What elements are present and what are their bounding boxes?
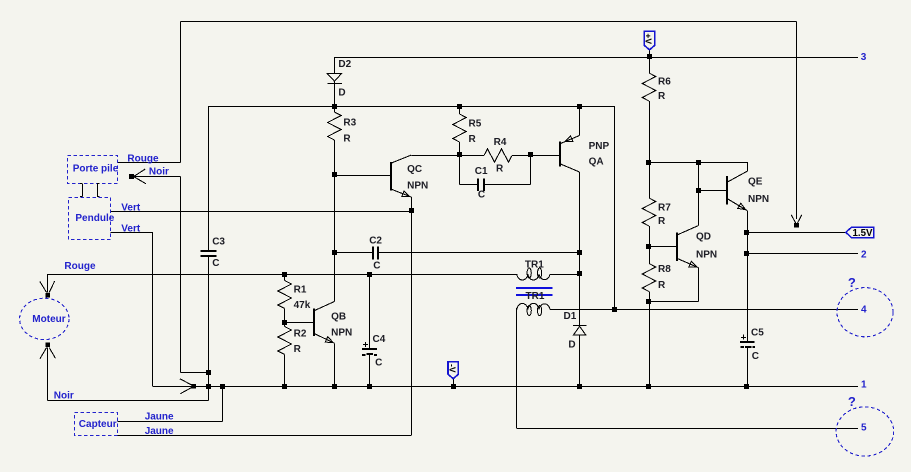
svg-text:-V: -V (447, 364, 457, 373)
wire Jaune1 wire (118, 421, 223, 423)
junction (649.5,57) (647, 54, 652, 59)
junction (411.2,211) (409, 208, 414, 213)
power symbol V- (448, 362, 458, 379)
svg-text:C: C (752, 351, 759, 362)
wire col x614 (614, 106, 616, 309)
wire C1 right col (530, 155, 532, 185)
svg-text:QE: QE (748, 177, 763, 188)
junction (579.4,273.9) (577, 271, 582, 276)
wire R6 bottom row (649, 162, 747, 164)
wire 1.5V row (747, 232, 846, 234)
transformer TR1 core (516, 287, 553, 289)
resistor R6 (642, 73, 656, 101)
wire node-1 row (153, 386, 858, 388)
wire V+ stub (649, 50, 651, 57)
wire row y106 (208, 106, 614, 108)
wire main row y274 left of TR1 (48, 274, 517, 276)
transformer TR1 primary (517, 274, 550, 280)
svg-text:R2: R2 (294, 329, 307, 340)
wire col x208 below C3 (208, 256, 210, 386)
svg-text:D: D (568, 339, 575, 350)
motor bottom terminal arrow (45, 342, 50, 347)
wire R7-R8 link (649, 226, 651, 264)
junction (222.4,386.2) (220, 384, 225, 389)
junction (369.3,274.2) (367, 272, 372, 277)
svg-text:3: 3 (861, 52, 867, 63)
junction (369.3,386.2) (367, 384, 372, 389)
node 5 circle (836, 407, 894, 456)
svg-text:2: 2 (861, 249, 867, 260)
svg-text:QA: QA (589, 156, 604, 167)
pins between Porte pile and Pendule (82, 184, 84, 197)
wire D2 bottom lead / R3 top (334, 81, 336, 112)
svg-text:PNP: PNP (589, 141, 610, 152)
node 4 circle (837, 288, 893, 337)
wire col x180 top (rouge) (180, 22, 182, 163)
svg-text:R: R (658, 216, 666, 227)
capacitor C5 polarized (740, 341, 755, 343)
wire D1 bottom lead (579, 335, 581, 386)
svg-text:R7: R7 (658, 202, 671, 213)
junction (579.4,252.8) (577, 250, 582, 255)
wire C5 bottom lead (747, 348, 749, 387)
junction (649,246.9) (646, 244, 651, 249)
wire col x152 vert2 (152, 232, 154, 386)
wire QC collector / R4 row left (411, 155, 484, 157)
svg-text:D: D (338, 87, 345, 98)
svg-text:5: 5 (861, 423, 867, 434)
junction (453.3,386.2) (451, 384, 456, 389)
svg-text:C1: C1 (475, 166, 488, 177)
svg-text:R5: R5 (469, 118, 482, 129)
wire col x180 noir (180, 176, 182, 372)
svg-text:C: C (478, 190, 485, 201)
junction (698.3,162) (696, 160, 701, 165)
junction (284.6,386.2) (282, 384, 287, 389)
svg-text:+V: +V (644, 33, 654, 44)
wire QA collector col (579, 172, 581, 325)
junction (747.0,253.5) (744, 251, 749, 256)
wire col R1 top lead (284, 274, 286, 280)
wire top row (180, 21, 796, 23)
resistor R7 (642, 198, 656, 226)
svg-text:R3: R3 (343, 117, 356, 128)
svg-text:C2: C2 (369, 236, 382, 247)
svg-text:47k: 47k (294, 300, 311, 311)
wire R6-R7 link (649, 101, 651, 198)
svg-text:R: R (658, 280, 666, 291)
wire C1 row right (484, 184, 531, 186)
wire Rouge top wire (117, 162, 180, 164)
svg-text:C3: C3 (212, 237, 225, 248)
resistor R4 (484, 149, 512, 162)
svg-text:1: 1 (861, 379, 867, 390)
svg-text:Vert: Vert (121, 224, 141, 235)
junction (334.4,106) (332, 104, 337, 109)
wire C2 row right (378, 252, 580, 254)
block Pendule (69, 198, 111, 240)
resistor R2 (278, 327, 292, 355)
svg-text:C5: C5 (751, 328, 764, 339)
wire motor bottom stub (47, 347, 49, 400)
motor top terminal arrow (45, 293, 50, 298)
svg-text:R8: R8 (658, 264, 671, 275)
transformer TR1 secondary (517, 303, 550, 309)
junction (208.3,386.2) (206, 384, 211, 389)
wire C4 top lead (369, 274, 371, 349)
svg-text:Pendule: Pendule (75, 213, 114, 224)
junction (334.4,174.8) (332, 172, 337, 177)
port arrow on node-1 row (191, 384, 196, 389)
svg-text:?: ? (848, 394, 856, 409)
svg-text:QC: QC (407, 164, 422, 175)
svg-text:Jaune: Jaune (145, 426, 174, 437)
junction (284.6,322) (282, 320, 287, 325)
wire QA emitter col (579, 106, 581, 136)
wire QC emitter col (411, 197, 413, 435)
svg-text:C: C (375, 357, 382, 368)
wire col x208 above C3 (208, 106, 210, 251)
diode D1 (573, 325, 587, 327)
junction (649,162) (646, 160, 651, 165)
wire col R2 bottom (284, 355, 286, 387)
junction (747.0,386.2) (744, 384, 749, 389)
wire C2 row left (334, 252, 373, 254)
wire QB base wire (285, 322, 314, 324)
junction (649,386.2) (646, 384, 651, 389)
svg-text:D2: D2 (338, 59, 351, 70)
svg-text:NPN: NPN (696, 249, 717, 260)
block Porte pile (68, 156, 118, 184)
junction (747.0,232.6) (744, 230, 749, 235)
wire TR1 primary right lead (550, 274, 579, 276)
svg-text:D1: D1 (564, 311, 577, 322)
wire QB emitter col (334, 343, 336, 386)
wire col R1-R2 mid (284, 309, 286, 327)
capacitor C1 (477, 179, 479, 191)
svg-text:TR1: TR1 (526, 291, 545, 302)
junction (459.5,106) (457, 104, 462, 109)
wire V- stub (453, 379, 455, 387)
svg-text:Rouge: Rouge (127, 154, 159, 165)
svg-text:?: ? (848, 275, 856, 290)
wire Noir bottom wire (47, 400, 208, 402)
svg-text:R6: R6 (658, 76, 671, 87)
svg-text:R1: R1 (294, 285, 307, 296)
svg-text:C: C (212, 258, 219, 269)
port arrow Noir (Porte pile) (129, 174, 134, 179)
wire R4 row right to QA base (512, 155, 560, 157)
junction (208.3,372.5) (206, 370, 211, 375)
net label 1.5V (846, 227, 874, 237)
wire TR1 secondary left lead (516, 308, 518, 428)
transistor QB (NPN) (313, 309, 315, 337)
svg-text:NPN: NPN (748, 194, 769, 205)
wire Vert2 stub (110, 232, 152, 234)
svg-text:R: R (469, 134, 477, 145)
svg-text:Noir: Noir (149, 167, 169, 178)
wire QE base wire (698, 190, 727, 192)
wire Noir top wire (132, 176, 181, 178)
power symbol V+ (644, 31, 655, 50)
wire Jaune2 wire (118, 435, 412, 437)
junction (530.5,155) (528, 152, 533, 157)
pointer arrow to 1.5V net (796, 22, 798, 220)
junction (649,301.6) (646, 299, 651, 304)
wire link row y372 (181, 372, 209, 374)
transistor QC (NPN) (390, 162, 392, 191)
wire QD emitter col (698, 268, 700, 302)
svg-text:Noir: Noir (54, 390, 74, 401)
resistor R3 (328, 112, 342, 140)
svg-text:4: 4 (861, 305, 867, 316)
block Moteur (circle) (20, 298, 69, 339)
wire col x222 jaune1 riser (222, 386, 224, 421)
diode D2 (327, 74, 341, 82)
junction (459.5,155) (457, 152, 462, 157)
svg-text:QD: QD (696, 232, 711, 243)
svg-text:R: R (658, 91, 666, 102)
svg-text:1.5V: 1.5V (853, 228, 873, 239)
svg-text:C: C (373, 261, 380, 272)
svg-text:C4: C4 (373, 334, 386, 345)
transistor QA (PNP) (559, 142, 561, 167)
svg-text:Vert: Vert (121, 202, 141, 213)
junction (579.4,106) (577, 104, 582, 109)
wire node-3 row (334, 57, 858, 59)
svg-text:R: R (294, 344, 302, 355)
wire node-2 row (747, 253, 858, 255)
svg-text:R: R (496, 164, 504, 175)
svg-text:QB: QB (331, 311, 346, 322)
wire C4 bottom lead (369, 355, 371, 387)
wire R8-QD emitter row (649, 301, 698, 303)
wire motor top stub (47, 274, 49, 293)
wire D2 top lead (334, 57, 336, 74)
block Capteur (75, 413, 118, 436)
wire node-5 row (516, 428, 858, 430)
svg-text:R4: R4 (494, 137, 507, 148)
wire R8 bottom col (649, 292, 651, 387)
wire C1 row left (460, 184, 479, 186)
svg-text:Rouge: Rouge (64, 261, 96, 272)
svg-text:Capteur: Capteur (79, 419, 117, 430)
wire R6 top lead (649, 57, 651, 73)
junction (334.6,386.2) (332, 384, 337, 389)
wire QE base col (698, 162, 700, 226)
junction (334.4,252.8) (332, 250, 337, 255)
wire R5 bottom / C1 left (459, 142, 461, 185)
transistor QD (NPN) (676, 232, 678, 261)
svg-text:R: R (343, 134, 351, 145)
resistor R8 (642, 264, 656, 292)
capacitor C4 polarized (362, 348, 377, 350)
svg-text:Porte pile: Porte pile (73, 164, 119, 175)
junction (284.6,274.4) (282, 272, 287, 277)
svg-text:TR1: TR1 (525, 260, 544, 271)
junction (579.6,386.2) (577, 384, 582, 389)
resistor R1 (278, 281, 292, 309)
wire QD base wire (649, 246, 677, 248)
wire col x334 R3 to QB collector (334, 140, 336, 302)
svg-text:Moteur: Moteur (32, 314, 65, 325)
wire QE collector col (747, 162, 749, 171)
junction (698.3,190) (696, 188, 701, 193)
wire R5 top lead (459, 106, 461, 114)
svg-text:Jaune: Jaune (145, 412, 174, 423)
wire node-4 row (550, 309, 858, 311)
wire QE emitter col (747, 211, 749, 342)
transistor QE (NPN) (726, 176, 728, 205)
capacitor C3 (201, 250, 217, 252)
wire col x208 noir riser (208, 386, 210, 400)
junction (614.3,309.4) (612, 307, 617, 312)
svg-text:NPN: NPN (331, 327, 352, 338)
wire Vert1 row (110, 211, 411, 213)
svg-text:NPN: NPN (407, 180, 428, 191)
capacitor C2 (372, 247, 374, 260)
resistor R5 (453, 114, 467, 142)
